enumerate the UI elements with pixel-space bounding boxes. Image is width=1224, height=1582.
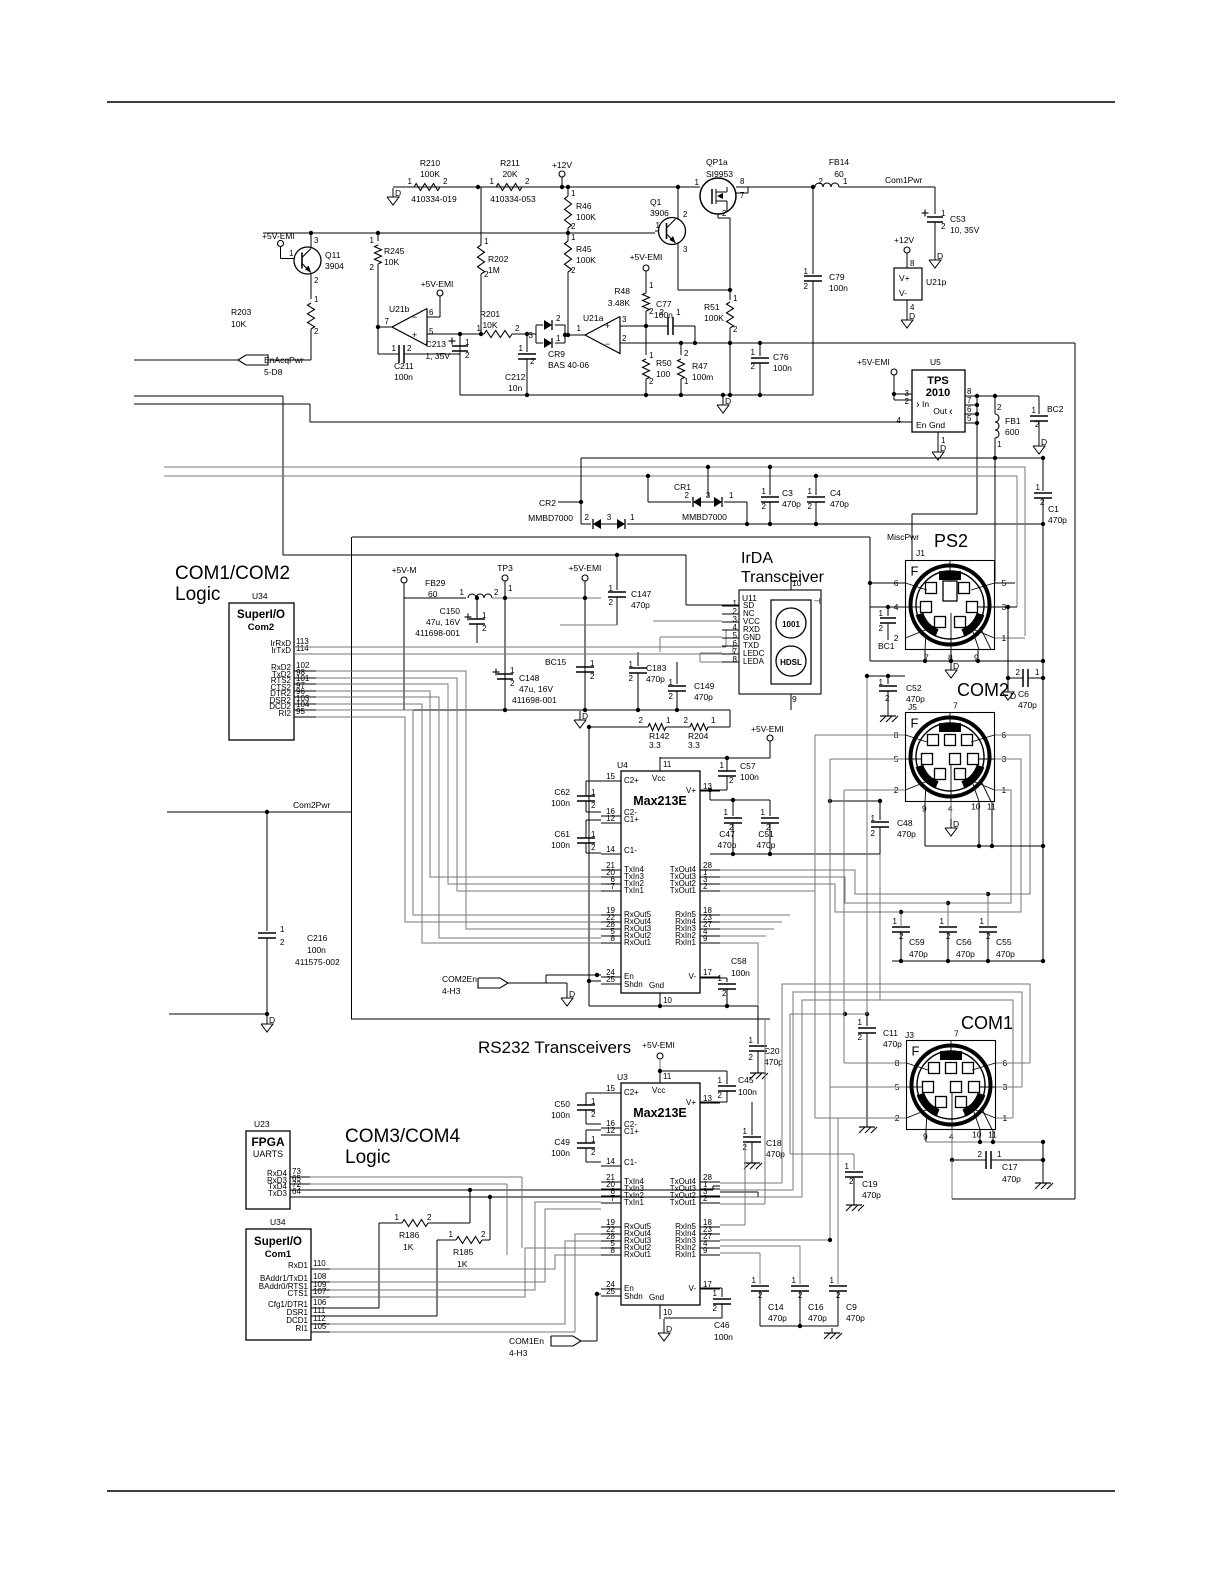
svg-text:C183: C183 xyxy=(646,663,667,673)
svg-text:1: 1 xyxy=(724,808,729,817)
svg-text:+5V-EMI: +5V-EMI xyxy=(857,357,890,367)
svg-text:2: 2 xyxy=(629,674,634,683)
svg-text:10: 10 xyxy=(792,578,802,588)
svg-text:C150: C150 xyxy=(440,606,461,616)
svg-text:1: 1 xyxy=(792,1276,797,1285)
svg-text:R51: R51 xyxy=(704,302,720,312)
svg-text:C14: C14 xyxy=(768,1302,784,1312)
svg-text:2: 2 xyxy=(871,829,876,838)
svg-text:3.48K: 3.48K xyxy=(608,298,631,308)
svg-text:1: 1 xyxy=(666,716,671,725)
svg-text:1: 1 xyxy=(1035,668,1040,677)
svg-text:2: 2 xyxy=(660,308,665,317)
svg-text:F: F xyxy=(912,1044,920,1059)
svg-text:11: 11 xyxy=(663,1072,672,1081)
svg-text:2: 2 xyxy=(703,882,708,891)
svg-text:10: 10 xyxy=(663,1308,672,1317)
svg-text:1: 1 xyxy=(845,1162,850,1171)
svg-text:C19: C19 xyxy=(862,1179,878,1189)
svg-text:C57: C57 xyxy=(740,761,756,771)
svg-text:6: 6 xyxy=(967,405,972,414)
svg-text:C211: C211 xyxy=(394,361,414,371)
svg-text:2: 2 xyxy=(941,222,946,231)
svg-text:470p: 470p xyxy=(830,499,849,509)
svg-text:3904: 3904 xyxy=(325,261,344,271)
svg-text:1: 1 xyxy=(1032,406,1037,415)
svg-text:U34: U34 xyxy=(270,1217,286,1227)
svg-text:C212: C212 xyxy=(505,372,526,382)
svg-text:1: 1 xyxy=(980,917,985,926)
svg-text:C1+: C1+ xyxy=(624,815,639,824)
svg-text:C1-: C1- xyxy=(624,846,637,855)
svg-text:1: 1 xyxy=(761,808,766,817)
svg-text:7: 7 xyxy=(385,317,390,326)
svg-text:Vcc: Vcc xyxy=(652,1086,665,1095)
svg-text:LEDA: LEDA xyxy=(743,657,765,666)
svg-text:1: 1 xyxy=(656,221,661,230)
svg-text:4-H3: 4-H3 xyxy=(509,1348,528,1358)
svg-text:5: 5 xyxy=(967,414,972,423)
svg-text:Logic: Logic xyxy=(175,584,220,605)
svg-text:V-: V- xyxy=(899,288,907,298)
svg-text:1: 1 xyxy=(695,178,700,187)
svg-text:RxIn1: RxIn1 xyxy=(675,1250,696,1259)
svg-text:SuperI/O: SuperI/O xyxy=(237,609,285,621)
svg-text:2: 2 xyxy=(427,1213,432,1222)
svg-text:TxOut1: TxOut1 xyxy=(670,886,697,895)
svg-text:+5V-EMI: +5V-EMI xyxy=(569,563,602,573)
svg-text:2: 2 xyxy=(609,598,614,607)
svg-text:1: 1 xyxy=(510,666,515,675)
svg-text:R48: R48 xyxy=(614,286,630,296)
svg-text:1: 1 xyxy=(395,1213,400,1222)
svg-text:C9: C9 xyxy=(846,1302,857,1312)
svg-text:600: 600 xyxy=(1005,427,1019,437)
svg-text:3.3: 3.3 xyxy=(649,740,661,750)
svg-text:C45: C45 xyxy=(738,1075,754,1085)
svg-text:U21p: U21p xyxy=(926,277,947,287)
svg-text:MiscPwr: MiscPwr xyxy=(887,532,919,542)
svg-text:1: 1 xyxy=(519,344,524,353)
svg-text:2: 2 xyxy=(703,1194,708,1203)
svg-text:+: + xyxy=(605,321,610,331)
svg-text:›: › xyxy=(916,399,920,411)
svg-text:470p: 470p xyxy=(996,949,1015,959)
svg-text:1: 1 xyxy=(630,513,635,522)
svg-text:2: 2 xyxy=(591,1110,596,1119)
svg-text:2: 2 xyxy=(879,624,884,633)
svg-text:COM1/COM2: COM1/COM2 xyxy=(175,563,290,584)
svg-text:2: 2 xyxy=(590,672,595,681)
svg-text:R245: R245 xyxy=(384,246,405,256)
svg-text:2: 2 xyxy=(481,1230,486,1239)
svg-text:C56: C56 xyxy=(956,937,972,947)
svg-text:1: 1 xyxy=(843,177,848,186)
svg-text:2: 2 xyxy=(370,263,375,272)
svg-text:R47: R47 xyxy=(692,361,708,371)
svg-text:Max213E: Max213E xyxy=(633,1106,687,1120)
svg-text:2: 2 xyxy=(649,307,654,316)
svg-text:470p: 470p xyxy=(718,840,737,850)
svg-text:470p: 470p xyxy=(631,600,650,610)
svg-text:1: 1 xyxy=(590,659,595,668)
svg-text:7: 7 xyxy=(611,1194,616,1203)
svg-text:2: 2 xyxy=(684,349,689,358)
svg-text:1: 1 xyxy=(556,334,561,343)
svg-text:D: D xyxy=(909,311,915,321)
svg-text:14: 14 xyxy=(606,845,615,854)
svg-text:1: 1 xyxy=(392,344,397,353)
svg-text:8: 8 xyxy=(611,1246,616,1255)
svg-text:1: 1 xyxy=(649,351,654,360)
svg-text:RI2: RI2 xyxy=(279,709,292,718)
svg-text:1: 1 xyxy=(743,1127,748,1136)
svg-text:1M: 1M xyxy=(488,265,500,275)
svg-text:C149: C149 xyxy=(694,681,715,691)
svg-text:2: 2 xyxy=(751,362,756,371)
svg-text:D: D xyxy=(269,1015,275,1025)
svg-text:470p: 470p xyxy=(808,1313,827,1323)
svg-text:1: 1 xyxy=(490,177,495,186)
svg-text:MMBD7000: MMBD7000 xyxy=(682,512,727,522)
svg-text:1: 1 xyxy=(577,324,582,333)
svg-text:Shdn: Shdn xyxy=(624,1292,643,1301)
svg-text:110: 110 xyxy=(313,1259,326,1268)
svg-text:100K: 100K xyxy=(704,313,724,323)
svg-text:2: 2 xyxy=(718,1091,723,1100)
svg-text:411698-001: 411698-001 xyxy=(512,695,557,705)
svg-text:+5V-M: +5V-M xyxy=(392,565,417,575)
svg-text:D: D xyxy=(1041,437,1047,447)
svg-text:1: 1 xyxy=(808,487,813,496)
svg-text:C48: C48 xyxy=(897,818,913,828)
svg-text:470p: 470p xyxy=(782,499,801,509)
svg-text:470p: 470p xyxy=(909,949,928,959)
svg-text:9: 9 xyxy=(703,934,708,943)
svg-text:2: 2 xyxy=(885,694,890,703)
svg-text:410334-019: 410334-019 xyxy=(411,194,457,204)
svg-text:U21a: U21a xyxy=(583,313,604,323)
svg-text:C147: C147 xyxy=(631,589,652,599)
svg-text:C17: C17 xyxy=(1002,1162,1018,1172)
svg-text:2: 2 xyxy=(849,1177,854,1186)
svg-text:2: 2 xyxy=(858,1033,863,1042)
svg-text:470p: 470p xyxy=(646,674,665,684)
svg-text:3.3: 3.3 xyxy=(688,740,700,750)
svg-text:3: 3 xyxy=(607,513,612,522)
svg-text:C18: C18 xyxy=(766,1138,782,1148)
svg-text:12: 12 xyxy=(606,1126,615,1135)
svg-text:TxOut1: TxOut1 xyxy=(670,1198,697,1207)
svg-text:F: F xyxy=(911,716,919,731)
svg-text:2: 2 xyxy=(314,276,319,285)
svg-text:SI9953: SI9953 xyxy=(706,169,733,179)
svg-text:100n: 100n xyxy=(714,1332,733,1342)
svg-text:RI1: RI1 xyxy=(296,1324,309,1333)
svg-text:2: 2 xyxy=(729,776,734,785)
svg-text:C61: C61 xyxy=(554,829,570,839)
svg-text:R185: R185 xyxy=(453,1247,474,1257)
svg-text:2010: 2010 xyxy=(926,387,950,399)
svg-text:470p: 470p xyxy=(883,1039,902,1049)
svg-text:Q1: Q1 xyxy=(650,197,662,207)
svg-text:100n: 100n xyxy=(731,968,750,978)
svg-text:TxIn1: TxIn1 xyxy=(624,886,645,895)
svg-text:1: 1 xyxy=(729,491,734,500)
svg-text:6: 6 xyxy=(429,308,434,317)
svg-text:C53: C53 xyxy=(950,214,966,224)
svg-text:5-D8: 5-D8 xyxy=(264,367,283,377)
svg-text:11: 11 xyxy=(663,760,672,769)
svg-text:⊣: ⊣ xyxy=(813,596,821,606)
svg-text:BAS 40-06: BAS 40-06 xyxy=(548,360,589,370)
svg-text:1: 1 xyxy=(280,925,285,934)
svg-text:1: 1 xyxy=(449,1230,454,1239)
svg-text:17: 17 xyxy=(703,968,712,977)
svg-text:D: D xyxy=(395,188,401,198)
svg-text:R45: R45 xyxy=(576,244,592,254)
svg-text:1: 1 xyxy=(676,308,681,317)
svg-text:R46: R46 xyxy=(576,201,592,211)
svg-text:1: 1 xyxy=(858,1018,863,1027)
svg-text:In: In xyxy=(922,399,929,409)
svg-text:1: 1 xyxy=(669,678,674,687)
svg-text:1001: 1001 xyxy=(782,620,800,629)
svg-text:MMBD7000: MMBD7000 xyxy=(528,513,573,523)
svg-text:1: 1 xyxy=(1002,633,1007,643)
svg-text:2: 2 xyxy=(494,588,499,597)
svg-text:107: 107 xyxy=(313,1287,327,1296)
svg-text:7: 7 xyxy=(954,1029,959,1039)
svg-text:2: 2 xyxy=(443,177,448,186)
svg-text:FPGA: FPGA xyxy=(251,1135,285,1149)
svg-text:1: 1 xyxy=(314,295,319,304)
svg-text:8: 8 xyxy=(740,177,745,186)
svg-text:Gnd: Gnd xyxy=(649,1293,664,1302)
svg-text:2: 2 xyxy=(685,491,690,500)
svg-text:47u, 16V: 47u, 16V xyxy=(519,684,553,694)
svg-text:10K: 10K xyxy=(482,320,497,330)
svg-text:100n: 100n xyxy=(394,372,413,382)
svg-text:15: 15 xyxy=(606,1084,615,1093)
svg-text:2: 2 xyxy=(762,502,767,511)
svg-text:1: 1 xyxy=(591,1135,596,1144)
svg-text:‹: ‹ xyxy=(949,406,953,418)
svg-text:2: 2 xyxy=(722,989,727,998)
svg-text:D: D xyxy=(940,443,946,453)
svg-text:1: 1 xyxy=(997,440,1002,449)
svg-text:COM1: COM1 xyxy=(961,1013,1013,1033)
svg-text:U5: U5 xyxy=(930,357,941,367)
svg-text:4: 4 xyxy=(897,416,902,425)
svg-text:2: 2 xyxy=(314,327,319,336)
svg-text:7: 7 xyxy=(953,701,958,711)
svg-text:1: 1 xyxy=(711,716,716,725)
svg-text:100K: 100K xyxy=(576,255,596,265)
svg-text:C62: C62 xyxy=(554,787,570,797)
svg-text:1K: 1K xyxy=(403,1242,414,1252)
svg-text:1: 1 xyxy=(830,1276,835,1285)
svg-text:105: 105 xyxy=(313,1322,327,1331)
svg-text:2: 2 xyxy=(510,679,515,688)
svg-text:1: 1 xyxy=(571,189,576,198)
svg-text:F: F xyxy=(911,564,919,579)
svg-text:14: 14 xyxy=(606,1157,615,1166)
svg-text:10: 10 xyxy=(663,996,672,1005)
svg-text:1: 1 xyxy=(370,236,375,245)
svg-text:2: 2 xyxy=(669,692,674,701)
svg-text:RxIn1: RxIn1 xyxy=(675,938,696,947)
svg-text:2: 2 xyxy=(571,222,576,231)
svg-text:En: En xyxy=(916,420,927,430)
svg-text:+5V-EMI: +5V-EMI xyxy=(262,231,295,241)
svg-text:1: 1 xyxy=(465,338,470,347)
svg-text:95: 95 xyxy=(296,707,305,716)
svg-text:10K: 10K xyxy=(231,319,246,329)
svg-text:64: 64 xyxy=(292,1187,301,1196)
svg-text:C213: C213 xyxy=(426,339,447,349)
svg-text:C2+: C2+ xyxy=(624,1088,639,1097)
svg-text:2: 2 xyxy=(571,266,576,275)
svg-text:470p: 470p xyxy=(862,1190,881,1200)
svg-text:V-: V- xyxy=(688,972,696,981)
svg-text:COM3/COM4: COM3/COM4 xyxy=(345,1126,461,1147)
svg-text:2: 2 xyxy=(978,1150,983,1159)
svg-text:100n: 100n xyxy=(738,1087,757,1097)
svg-text:C58: C58 xyxy=(731,956,747,966)
svg-text:3906: 3906 xyxy=(650,208,669,218)
svg-text:R201: R201 xyxy=(480,309,501,319)
svg-text:C55: C55 xyxy=(996,937,1012,947)
svg-text:2: 2 xyxy=(766,823,771,832)
svg-text:R186: R186 xyxy=(399,1230,420,1240)
svg-text:1: 1 xyxy=(477,324,482,333)
svg-text:2: 2 xyxy=(525,177,530,186)
svg-text:C1: C1 xyxy=(1048,504,1059,514)
svg-text:D: D xyxy=(569,989,575,999)
svg-text:1: 1 xyxy=(591,1097,596,1106)
svg-text:HDSL: HDSL xyxy=(780,658,802,667)
svg-text:D: D xyxy=(937,251,943,261)
svg-text:Logic: Logic xyxy=(345,1147,390,1168)
svg-text:9: 9 xyxy=(792,694,797,704)
svg-text:2: 2 xyxy=(515,324,520,333)
svg-text:1: 1 xyxy=(941,209,946,218)
svg-text:470p: 470p xyxy=(757,840,776,850)
svg-text:Com1Pwr: Com1Pwr xyxy=(885,175,922,185)
svg-text:D: D xyxy=(666,1324,672,1334)
svg-text:2: 2 xyxy=(591,843,596,852)
svg-text:100m: 100m xyxy=(692,372,713,382)
svg-text:PS2: PS2 xyxy=(934,531,968,551)
svg-text:100n: 100n xyxy=(829,283,848,293)
svg-text:V+: V+ xyxy=(899,273,910,283)
svg-text:470p: 470p xyxy=(906,694,925,704)
svg-text:2: 2 xyxy=(639,716,644,725)
svg-text:FB14: FB14 xyxy=(829,157,850,167)
svg-text:C79: C79 xyxy=(829,272,845,282)
svg-text:Out: Out xyxy=(933,406,947,416)
svg-text:2: 2 xyxy=(556,314,561,323)
svg-text:47u, 16V: 47u, 16V xyxy=(426,617,460,627)
svg-text:1: 1 xyxy=(649,281,654,290)
svg-text:1: 1 xyxy=(591,830,596,839)
svg-text:J1: J1 xyxy=(916,548,925,558)
svg-text:15: 15 xyxy=(606,772,615,781)
svg-text:9: 9 xyxy=(703,1246,708,1255)
svg-text:2: 2 xyxy=(280,938,285,947)
svg-text:C59: C59 xyxy=(909,937,925,947)
svg-text:Gnd: Gnd xyxy=(929,420,945,430)
svg-text:BC15: BC15 xyxy=(545,657,567,667)
svg-text:−: − xyxy=(605,339,610,349)
svg-text:D: D xyxy=(582,711,588,721)
svg-text:100n: 100n xyxy=(551,1148,570,1158)
svg-text:470p: 470p xyxy=(956,949,975,959)
svg-text:2: 2 xyxy=(749,1053,754,1062)
svg-text:C49: C49 xyxy=(554,1137,570,1147)
svg-text:100: 100 xyxy=(656,369,670,379)
svg-text:RxD1: RxD1 xyxy=(288,1261,309,1270)
svg-text:100n: 100n xyxy=(551,840,570,850)
svg-text:C216: C216 xyxy=(307,933,328,943)
svg-text:COM2: COM2 xyxy=(957,680,1009,700)
svg-text:C2+: C2+ xyxy=(624,776,639,785)
svg-text:SuperI/O: SuperI/O xyxy=(254,1236,302,1248)
svg-text:2: 2 xyxy=(722,209,727,218)
svg-text:470p: 470p xyxy=(1018,700,1037,710)
svg-text:2: 2 xyxy=(733,325,738,334)
svg-text:411575-002: 411575-002 xyxy=(295,957,340,967)
svg-text:100K: 100K xyxy=(576,212,596,222)
svg-text:1: 1 xyxy=(609,584,614,593)
svg-text:Com2: Com2 xyxy=(248,622,274,633)
svg-text:+5V-EMI: +5V-EMI xyxy=(642,1040,675,1050)
svg-text:+5V-EMI: +5V-EMI xyxy=(751,724,784,734)
svg-text:10, 35V: 10, 35V xyxy=(950,225,980,235)
svg-text:R203: R203 xyxy=(231,307,252,317)
svg-text:C52: C52 xyxy=(906,683,922,693)
svg-text:C1-: C1- xyxy=(624,1158,637,1167)
svg-text:2: 2 xyxy=(649,377,654,386)
svg-text:470p: 470p xyxy=(897,829,916,839)
svg-text:2: 2 xyxy=(1040,498,1045,507)
svg-text:2: 2 xyxy=(591,801,596,810)
svg-text:60: 60 xyxy=(428,589,438,599)
svg-text:CTS1: CTS1 xyxy=(288,1289,309,1298)
svg-text:2: 2 xyxy=(1016,668,1021,677)
svg-text:2: 2 xyxy=(905,397,910,406)
svg-text:C46: C46 xyxy=(714,1320,730,1330)
svg-text:1: 1 xyxy=(879,678,884,687)
svg-text:+12V: +12V xyxy=(894,235,914,245)
svg-text:+5V-EMI: +5V-EMI xyxy=(421,279,454,289)
svg-text:IrTxD: IrTxD xyxy=(271,646,291,655)
svg-text:2: 2 xyxy=(484,270,489,279)
svg-text:RxOut1: RxOut1 xyxy=(624,1250,652,1259)
svg-text:1: 1 xyxy=(749,1036,754,1045)
svg-text:100n: 100n xyxy=(551,798,570,808)
svg-text:100n: 100n xyxy=(773,363,792,373)
svg-text:2: 2 xyxy=(482,624,487,633)
svg-text:3: 3 xyxy=(529,331,534,340)
svg-text:10n: 10n xyxy=(508,383,522,393)
svg-text:R50: R50 xyxy=(656,358,672,368)
svg-text:V+: V+ xyxy=(686,1098,696,1107)
svg-text:8: 8 xyxy=(611,934,616,943)
svg-text:+12V: +12V xyxy=(552,160,572,170)
svg-text:2: 2 xyxy=(713,1304,718,1313)
